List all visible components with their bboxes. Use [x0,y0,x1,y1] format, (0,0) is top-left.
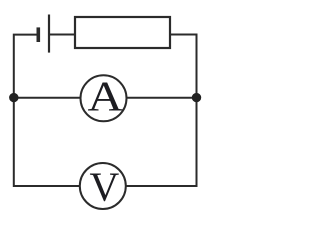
resistor R (box) [75,17,170,48]
battery cell: long thin positive plate [48,15,50,53]
wire: battery positive plate to resistor box [50,34,75,36]
svg-text:V: V [90,163,120,209]
node: left junction dot [9,93,18,102]
voltmeter U2: circle [80,163,126,209]
wire: top-left from battery to left corner, down to left node [14,35,37,94]
svg-text:A: A [88,73,124,120]
wire: right vertical from node to bottom-right corner, then left to voltmeter [126,102,197,187]
ammeter U1: circle [81,75,127,121]
wire: middle-right from ammeter to right node [126,97,193,99]
wire: middle-left from left node to ammeter [18,97,82,99]
wire: left vertical from node down to bottom-left corner, then right to voltmeter [14,102,80,187]
battery cell: short thick negative plate [36,27,40,42]
wire: resistor box to top-right corner, down to right node [170,35,197,94]
node: right junction dot [192,93,201,102]
